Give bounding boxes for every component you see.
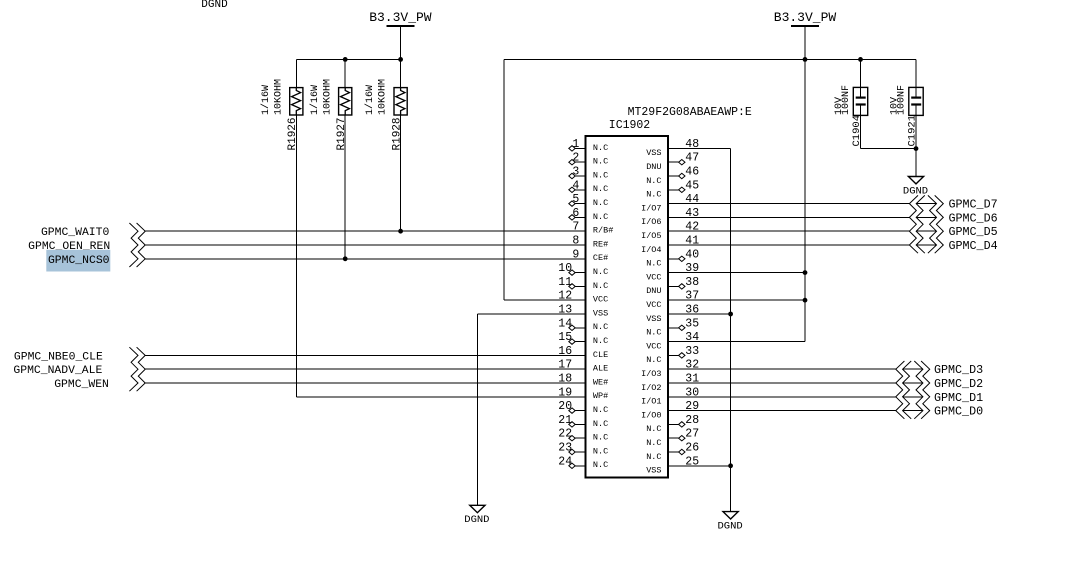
svg-text:N.C: N.C	[646, 452, 661, 462]
svg-text:27: 27	[685, 428, 699, 441]
junction pin25/ground bus	[728, 463, 733, 468]
svg-text:B3.3V_PW: B3.3V_PW	[774, 10, 837, 25]
wire GPMC_D1 (pin 30)	[668, 396, 896, 398]
junction rail/R1928	[398, 57, 403, 62]
pin 13 (VSS) left	[558, 304, 608, 319]
resistor R1926	[290, 88, 303, 115]
svg-text:I/O0: I/O0	[641, 410, 661, 420]
svg-text:N.C: N.C	[646, 176, 661, 186]
svg-text:GPMC_D1: GPMC_D1	[934, 391, 983, 405]
wire left pull-up rail	[296, 58, 400, 60]
pin 37 (VCC) right	[646, 290, 699, 310]
svg-text:VCC: VCC	[646, 341, 661, 351]
svg-text:GPMC_D7: GPMC_D7	[949, 198, 998, 212]
wire pin 36 VSS	[668, 313, 731, 315]
wire GPMC_D6 (pin 43)	[668, 216, 909, 218]
pin 7 (R/B#) left	[572, 221, 613, 236]
port chevrons GPMC_D3..D0	[896, 361, 930, 419]
svg-text:N.C: N.C	[593, 157, 608, 167]
pin 14 (N.C) left	[558, 317, 608, 332]
pin 11 (N.C) left	[558, 276, 608, 291]
svg-text:WE#: WE#	[593, 377, 608, 387]
wire GPMC_D7 (pin 44)	[668, 203, 909, 205]
capacitor C1921 top lead	[915, 59, 917, 97]
svg-text:RE#: RE#	[593, 239, 608, 249]
pin 28 (N.C) right	[646, 414, 699, 434]
svg-text:36: 36	[685, 304, 699, 317]
capacitor C1921	[909, 87, 923, 115]
wire GPMC_D4 (pin 41)	[668, 244, 909, 246]
pin 3 (N.C) left	[569, 166, 608, 181]
svg-text:R1928: R1928	[391, 117, 403, 150]
pin 21 (N.C) left	[558, 414, 608, 429]
svg-text:25: 25	[685, 455, 699, 468]
wire R1928 bottom lead to pin 7 net	[400, 115, 402, 231]
svg-text:26: 26	[685, 442, 699, 455]
svg-text:22: 22	[558, 428, 572, 441]
svg-text:10KOHM: 10KOHM	[322, 79, 333, 115]
pin 36 (VSS) right	[646, 304, 699, 324]
svg-text:5: 5	[572, 193, 579, 206]
svg-text:VSS: VSS	[646, 314, 661, 324]
svg-text:2: 2	[572, 152, 579, 165]
wire C1921 bottom lead	[915, 105, 917, 149]
wire GPMC_WAIT0 (pin 7 R/B#)	[145, 230, 585, 232]
pin 43 (I/O6) right	[641, 207, 699, 227]
svg-text:6: 6	[572, 207, 579, 220]
wire VCC rail (pin12 to caps)	[504, 58, 916, 60]
svg-text:12: 12	[558, 290, 572, 303]
svg-text:30: 30	[685, 386, 699, 399]
wire pin 25 VSS	[668, 465, 731, 467]
svg-text:I/O7: I/O7	[641, 203, 661, 213]
svg-text:41: 41	[685, 235, 699, 248]
wire power2 vertical to pin 34	[804, 26, 806, 342]
wire GPMC_OEN_REN (pin 8 RE#)	[145, 244, 585, 246]
svg-text:43: 43	[685, 207, 699, 220]
pin 17 (ALE) left	[558, 359, 608, 374]
svg-text:1: 1	[572, 138, 579, 151]
svg-text:N.C: N.C	[593, 433, 608, 443]
pin 34 (VCC) right	[646, 331, 699, 351]
svg-text:N.C: N.C	[593, 143, 608, 153]
pin 30 (I/O1) right	[641, 386, 699, 406]
svg-text:GPMC_D5: GPMC_D5	[949, 225, 998, 239]
svg-text:N.C: N.C	[593, 212, 608, 222]
svg-text:GPMC_NADV_ALE: GPMC_NADV_ALE	[13, 365, 102, 377]
pin 9 (CE#) left	[572, 248, 608, 263]
pin 33 (N.C) right	[646, 345, 699, 365]
svg-text:32: 32	[685, 359, 699, 372]
junction pin39/VCC drop	[803, 270, 808, 275]
svg-text:I/O1: I/O1	[641, 397, 661, 407]
svg-text:18: 18	[558, 373, 572, 386]
junction R1928/R\B#	[398, 229, 403, 234]
pin 46 (N.C) right	[646, 166, 699, 186]
svg-text:CLE: CLE	[593, 350, 608, 360]
svg-text:N.C: N.C	[593, 460, 608, 470]
svg-text:N.C: N.C	[593, 322, 608, 332]
svg-text:38: 38	[685, 276, 699, 289]
svg-text:B3.3V_PW: B3.3V_PW	[369, 10, 432, 25]
junction pin36/ground bus	[728, 312, 733, 317]
svg-text:29: 29	[685, 400, 699, 413]
pin 18 (WE#) left	[558, 373, 608, 388]
svg-text:N.C: N.C	[646, 355, 661, 365]
svg-text:N.C: N.C	[646, 259, 661, 269]
svg-text:3: 3	[572, 166, 579, 179]
power B3.3V_PW (right)	[791, 25, 819, 27]
pin 35 (N.C) right	[646, 317, 699, 337]
svg-text:N.C: N.C	[593, 198, 608, 208]
svg-text:10KOHM: 10KOHM	[273, 79, 284, 115]
svg-text:GPMC_NCS0: GPMC_NCS0	[48, 255, 110, 267]
svg-text:R1927: R1927	[336, 117, 348, 150]
svg-text:47: 47	[685, 152, 699, 165]
pin 10 (N.C) left	[558, 262, 608, 277]
pin 5 (N.C) left	[569, 193, 608, 208]
svg-text:DNU: DNU	[646, 162, 661, 172]
pin 6 (N.C) left	[569, 207, 608, 222]
svg-text:GPMC_WAIT0: GPMC_WAIT0	[41, 227, 110, 239]
wire pin 13 VSS to ground	[477, 313, 585, 315]
svg-text:1/16W: 1/16W	[309, 85, 321, 115]
svg-text:DNU: DNU	[646, 286, 661, 296]
pin 40 (N.C) right	[646, 248, 699, 268]
svg-text:I/O3: I/O3	[641, 369, 661, 379]
svg-text:1/16W: 1/16W	[260, 85, 272, 115]
pin 20 (N.C) left	[558, 400, 608, 415]
pin 23 (N.C) left	[558, 442, 608, 457]
svg-text:24: 24	[558, 455, 572, 468]
svg-text:15: 15	[558, 331, 572, 344]
wire GPMC_WEN (pin 18 WE#)	[145, 382, 585, 384]
resistor R1927	[339, 88, 352, 115]
svg-text:33: 33	[685, 345, 699, 358]
svg-text:DGND: DGND	[201, 0, 228, 11]
wire caps to ground	[915, 149, 917, 177]
wire GPMC_D3 (pin 32)	[668, 368, 896, 370]
svg-text:GPMC_WEN: GPMC_WEN	[54, 379, 109, 391]
pin 19 (WP#) left	[558, 386, 608, 401]
svg-text:VCC: VCC	[646, 272, 661, 282]
ground DGND (pin 13)	[464, 505, 489, 526]
pin 38 (DNU) right	[646, 276, 699, 296]
svg-text:N.C: N.C	[593, 170, 608, 180]
junction power2/right rail	[803, 57, 808, 62]
pin 48 (VSS) right	[646, 138, 699, 158]
junction R1927/CE#	[343, 256, 348, 261]
junction caps ground	[914, 146, 919, 151]
pin 39 (VCC) right	[646, 262, 699, 282]
svg-text:13: 13	[558, 304, 572, 317]
wire GPMC_NADV_ALE (pin 17 ALE)	[145, 368, 585, 370]
resistor R1927 top lead	[344, 59, 346, 87]
svg-text:VCC: VCC	[646, 300, 661, 310]
svg-text:31: 31	[685, 373, 699, 386]
wire R1926 bottom lead to pin 19	[295, 115, 297, 397]
pin 47 (DNU) right	[646, 152, 699, 172]
svg-text:17: 17	[558, 359, 572, 372]
svg-text:9: 9	[572, 248, 579, 261]
svg-text:28: 28	[685, 414, 699, 427]
power B3.3V_PW (left)	[386, 25, 414, 27]
port chevrons GPMC_WAIT0/OEN_REN/NCS0	[129, 223, 145, 267]
svg-text:I/O6: I/O6	[641, 217, 661, 227]
svg-text:N.C: N.C	[593, 184, 608, 194]
svg-text:14: 14	[558, 317, 572, 330]
svg-text:GPMC_D0: GPMC_D0	[934, 405, 983, 419]
svg-text:16: 16	[558, 345, 572, 358]
pin 8 (RE#) left	[572, 235, 608, 250]
svg-text:WP#: WP#	[593, 391, 608, 401]
svg-text:VCC: VCC	[593, 295, 608, 305]
pin 41 (I/O4) right	[641, 235, 699, 255]
wire GPMC_D2 (pin 31)	[668, 382, 896, 384]
capacitor C1904	[853, 87, 867, 115]
svg-text:N.C: N.C	[646, 190, 661, 200]
svg-text:37: 37	[685, 290, 699, 303]
wire R1927 bottom lead to pin 9 net	[344, 115, 346, 259]
svg-text:46: 46	[685, 166, 699, 179]
ground DGND (capacitors)	[903, 177, 928, 198]
svg-text:R1926: R1926	[287, 117, 299, 150]
svg-text:N.C: N.C	[593, 419, 608, 429]
svg-text:GPMC_D3: GPMC_D3	[934, 363, 983, 377]
svg-text:I/O5: I/O5	[641, 231, 661, 241]
node GPMC_NCS0 highlight	[46, 250, 110, 272]
svg-text:MT29F2G08ABAEAWP:E: MT29F2G08ABAEAWP:E	[628, 106, 752, 119]
svg-text:VSS: VSS	[646, 148, 661, 158]
pin 32 (I/O3) right	[641, 359, 699, 379]
svg-text:19: 19	[558, 386, 572, 399]
svg-text:IC1902: IC1902	[609, 119, 651, 132]
svg-text:N.C: N.C	[646, 328, 661, 338]
svg-text:I/O4: I/O4	[641, 245, 661, 255]
svg-text:44: 44	[685, 193, 699, 206]
svg-text:39: 39	[685, 262, 699, 275]
resistor R1928 top lead	[400, 59, 402, 87]
svg-text:CE#: CE#	[593, 253, 608, 263]
junction pin37/VCC drop	[803, 298, 808, 303]
pin 22 (N.C) left	[558, 428, 608, 443]
svg-text:35: 35	[685, 317, 699, 330]
wire pin 12 VCC horizontal	[504, 299, 585, 301]
svg-text:100NF: 100NF	[897, 85, 908, 115]
wire GPMC_D0 (pin 29)	[668, 410, 896, 412]
svg-text:4: 4	[572, 179, 579, 192]
wire GPMC_D5 (pin 42)	[668, 230, 909, 232]
wire capacitor ground tie	[861, 148, 917, 150]
port chevrons GPMC_NBE0_CLE/NADV_ALE/WEN	[129, 347, 145, 391]
svg-text:DGND: DGND	[464, 514, 489, 526]
pin 24 (N.C) left	[558, 455, 608, 470]
svg-text:45: 45	[685, 179, 699, 192]
resistor R1928	[394, 88, 407, 115]
svg-text:DGND: DGND	[717, 520, 742, 532]
svg-text:11: 11	[558, 276, 572, 289]
pin 25 (VSS) right	[646, 455, 699, 475]
pin 27 (N.C) right	[646, 428, 699, 448]
svg-text:VSS: VSS	[593, 308, 608, 318]
pin 29 (I/O0) right	[641, 400, 699, 420]
svg-text:100NF: 100NF	[841, 85, 852, 115]
svg-text:7: 7	[572, 221, 579, 234]
pin 16 (CLE) left	[558, 345, 608, 360]
junction rail/C1904	[858, 57, 863, 62]
svg-text:1/16W: 1/16W	[364, 85, 376, 115]
svg-text:R/B#: R/B#	[593, 226, 613, 236]
svg-text:34: 34	[685, 331, 699, 344]
wire ground bus vertical	[730, 148, 732, 511]
wire pin 12 VCC riser	[503, 59, 505, 300]
wire C1904 bottom lead	[860, 105, 862, 149]
pin 2 (N.C) left	[569, 152, 608, 167]
svg-text:10KOHM: 10KOHM	[378, 79, 389, 115]
svg-text:21: 21	[558, 414, 572, 427]
svg-text:N.C: N.C	[593, 267, 608, 277]
wire power1 drop to rail	[400, 26, 402, 88]
pin 42 (I/O5) right	[641, 221, 699, 241]
wire GPMC_NCS0 (pin 9 CE#)	[145, 258, 585, 260]
pin 45 (N.C) right	[646, 179, 699, 199]
wire pin 37 VCC	[668, 299, 805, 301]
svg-text:N.C: N.C	[646, 438, 661, 448]
pin 12 (VCC) left	[558, 290, 608, 305]
svg-text:ALE: ALE	[593, 364, 608, 374]
svg-text:42: 42	[685, 221, 699, 234]
svg-text:GPMC_D2: GPMC_D2	[934, 377, 983, 391]
pin 26 (N.C) right	[646, 442, 699, 462]
svg-text:8: 8	[572, 235, 579, 248]
ground DGND (pin 25 bus)	[717, 512, 742, 533]
junction rail/R1927	[343, 57, 348, 62]
pin 1 (N.C) left	[569, 138, 608, 153]
svg-text:N.C: N.C	[593, 281, 608, 291]
svg-text:48: 48	[685, 138, 699, 151]
svg-text:20: 20	[558, 400, 572, 413]
svg-text:VSS: VSS	[646, 466, 661, 476]
svg-text:N.C: N.C	[593, 446, 608, 456]
svg-text:GPMC_NBE0_CLE: GPMC_NBE0_CLE	[14, 351, 103, 363]
svg-text:GPMC_D4: GPMC_D4	[949, 239, 998, 253]
pin 15 (N.C) left	[558, 331, 608, 346]
svg-text:10: 10	[558, 262, 572, 275]
svg-text:N.C: N.C	[593, 405, 608, 415]
resistor R1926 top lead	[295, 59, 297, 87]
svg-text:N.C: N.C	[646, 424, 661, 434]
svg-text:GPMC_D6: GPMC_D6	[949, 211, 998, 225]
svg-text:40: 40	[685, 248, 699, 261]
pin 4 (N.C) left	[569, 179, 608, 194]
pin 44 (I/O7) right	[641, 193, 699, 213]
wire pin 34 VCC	[668, 341, 805, 343]
wire WP# (pin 19) to R1926	[296, 396, 585, 398]
svg-text:23: 23	[558, 442, 572, 455]
wire pin 39 VCC	[668, 272, 805, 274]
capacitor C1904 top lead	[860, 59, 862, 97]
svg-text:N.C: N.C	[593, 336, 608, 346]
port chevrons GPMC_D7..D4	[909, 195, 943, 253]
wire GPMC_NBE0_CLE (pin 16 CLE)	[145, 354, 585, 356]
wire pin 48 VSS to ground bus	[668, 147, 731, 149]
IC IC1902 body	[586, 136, 669, 478]
pin 31 (I/O2) right	[641, 373, 699, 393]
svg-text:I/O2: I/O2	[641, 383, 661, 393]
